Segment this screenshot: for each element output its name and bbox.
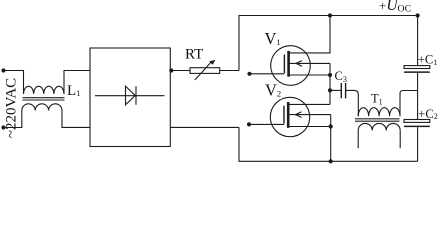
V1 source lead [289,74,330,76]
svg-text:+UOC: +UOC [379,0,411,14]
wire L1 bottom winding to rectifier [62,111,90,128]
T1 secondary lead right [399,130,401,148]
wire top rail to C1 [417,16,419,66]
terminal dot +Uoc [416,13,420,17]
capacitor C1 positive plate [404,66,430,69]
svg-text:L1: L1 [67,83,80,99]
svg-text:+C1: +C1 [418,53,437,67]
bottom rail [239,127,418,161]
bridge diode cathode bar [135,86,137,105]
MOSFET V1 envelope [271,46,311,86]
V2 body lead [288,114,331,116]
V1 drain lead [289,16,330,53]
junction dot C3 tap [328,88,332,92]
capacitor C2 positive plate [404,120,430,123]
svg-text:V2: V2 [265,81,281,100]
wire L1 top winding to rectifier [64,71,90,94]
V1 gate plate [283,55,285,74]
V2 body arrow [296,112,302,118]
V2 channel bar [287,102,290,128]
wire rectifier + output to top rail [170,70,239,72]
transformer T1 secondary winding [358,123,400,130]
V1 body lead [289,62,330,64]
junction dot bottom rail [329,159,333,163]
V1 body arrow [296,61,302,67]
capacitor C1 negative plate [404,71,430,73]
wire C3 left [330,89,341,91]
wire C2 to bottom rail [417,127,419,161]
inductor L1 bottom winding [22,104,62,111]
svg-text:T1: T1 [371,92,383,107]
svg-text:+C2: +C2 [418,107,437,121]
AC input terminal (bottom) [1,125,5,129]
V1 channel bar [287,51,290,77]
T1 core [355,119,400,121]
V2 source lead [288,126,331,128]
wire C3 to T1 primary left [346,90,359,116]
transformer T1 primary winding [358,108,400,117]
bridge diode triangle [126,86,136,105]
wire T1 primary right to capacitor midpoint [400,91,418,117]
svg-text:V1: V1 [265,29,281,48]
bridge diode line [95,95,165,97]
wire AC top to L1 [4,71,24,94]
junction dot V2 source [329,124,333,128]
svg-text:~220VAC: ~220VAC [4,78,20,138]
V2 drain lead [288,103,330,105]
top rail [239,16,418,71]
V2 gate terminal dot [247,122,251,126]
wire AC bottom to L1 [4,111,22,128]
junction dot V1 drain on rail [328,13,332,17]
svg-text:C3: C3 [335,69,347,84]
junction dot rectifier + output [169,68,173,72]
thermistor RT arrow [195,61,212,80]
V1 gate terminal dot [247,72,251,76]
wire rectifier - output [170,126,239,128]
inductor L1 top winding [24,86,64,94]
wire V2 gate [249,123,284,125]
junction dot V1 source [328,73,332,77]
V2 gate plate [283,106,285,124]
T1 secondary lead left [357,130,359,148]
midpoint vertical wire [329,63,331,104]
wire V1 gate [250,73,285,75]
MOSFET V2 envelope [270,97,309,136]
V2 source vertical to bottom rail [330,115,332,162]
wire C1 to C2 [417,73,419,120]
bridge rectifier box [90,48,170,147]
AC input terminal (top) [1,68,5,72]
svg-text:RT: RT [185,47,203,63]
thermistor RT body [190,68,220,74]
L1 core [23,98,65,100]
capacitor C2 negative plate [404,125,430,127]
capacitor C3 plates [340,83,342,98]
